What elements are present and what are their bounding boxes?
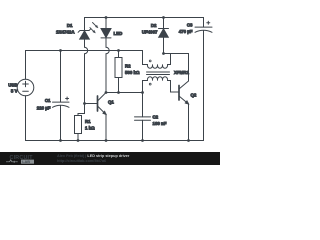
transistor Q2 xyxy=(179,54,189,141)
node junction Q2 emitter xyxy=(187,139,190,142)
svg-text:1N4742A: 1N4742A xyxy=(56,30,75,35)
svg-text:5 V: 5 V xyxy=(11,89,18,94)
svg-text:LED: LED xyxy=(114,31,123,36)
svg-text:UF4007: UF4007 xyxy=(142,30,158,35)
diode D2 xyxy=(159,18,169,54)
svg-text:USB: USB xyxy=(8,83,17,88)
wire D1 anode to Q1 base node xyxy=(84,54,86,104)
transformer XFMR1 phase dot bottom xyxy=(149,83,151,85)
node junction C1 bottom xyxy=(59,139,62,142)
capacitor C3 xyxy=(195,18,212,141)
wire feedback net y92 xyxy=(106,92,143,94)
transformer XFMR1 core xyxy=(147,72,170,75)
svg-text:Q2: Q2 xyxy=(191,92,197,97)
node junction Q1 base D1 R1 xyxy=(83,102,86,105)
footer CircuitLab logo xyxy=(6,155,34,164)
capacitor C1 xyxy=(53,51,70,141)
wire plus rail y50 xyxy=(26,50,143,52)
wire USB plus up xyxy=(25,51,27,80)
svg-text:220 µF: 220 µF xyxy=(37,106,51,111)
node junction R1 bottom xyxy=(77,139,80,142)
capacitor C2 xyxy=(135,93,151,141)
svg-text:470 µF: 470 µF xyxy=(179,29,193,34)
LED arrow 1 xyxy=(93,23,96,26)
svg-text:D1: D1 xyxy=(67,23,73,28)
voltage source USB V1 xyxy=(17,79,34,96)
svg-text:R1: R1 xyxy=(85,119,91,124)
wire top rail xyxy=(85,17,204,19)
svg-text:C3: C3 xyxy=(187,23,193,28)
node junction C2 top winding left xyxy=(141,91,144,94)
svg-text:Alex Feb (flebi) | LED strip s: Alex Feb (flebi) | LED strip stepup driv… xyxy=(57,154,130,158)
node junction C1 top xyxy=(59,49,62,52)
node junction Q1 collector xyxy=(105,91,108,94)
transformer XFMR1 primary winding top xyxy=(143,51,171,69)
wire ground rail bottom xyxy=(26,140,204,142)
label C3 plus polarity xyxy=(207,21,210,24)
wire USB minus down xyxy=(25,96,27,141)
node junction R2 bottom xyxy=(117,91,120,94)
wire LED cathode to Q1 collector node xyxy=(105,54,107,93)
transistor Q1 xyxy=(85,93,107,141)
svg-text:XFMR1: XFMR1 xyxy=(174,70,189,75)
footer bar xyxy=(0,152,220,165)
node junction top rail LED xyxy=(105,16,108,19)
svg-text:http://circuitlab.com/5kt7a6: http://circuitlab.com/5kt7a6 xyxy=(57,159,106,163)
resistor R1 xyxy=(75,104,85,141)
svg-text:R2: R2 xyxy=(125,64,131,69)
node junction C2 bottom xyxy=(141,139,144,142)
node junction top rail D2 xyxy=(162,16,165,19)
node junction R2 top xyxy=(117,49,120,52)
node junction D2 anode winding Q2 xyxy=(162,52,165,55)
transformer XFMR1 secondary winding bottom xyxy=(143,77,180,93)
svg-text:100 nF: 100 nF xyxy=(153,121,167,126)
wire D2 anode to Q2 collector xyxy=(164,53,189,55)
label C1 plus polarity xyxy=(66,97,69,100)
svg-text:500 kΩ: 500 kΩ xyxy=(125,70,140,75)
svg-text:Q1: Q1 xyxy=(108,99,114,104)
node junction Q1 emitter xyxy=(105,139,108,142)
LED xyxy=(101,18,111,48)
transformer XFMR1 phase dot top xyxy=(149,60,151,62)
svg-text:C1: C1 xyxy=(45,98,51,103)
zener diode D1 xyxy=(78,18,91,48)
wire LED hop over y50 rail xyxy=(106,47,109,53)
LED arrow 2 xyxy=(90,28,93,31)
svg-text:C2: C2 xyxy=(153,115,159,120)
svg-text:LAB: LAB xyxy=(22,160,30,164)
svg-text:1 kΩ: 1 kΩ xyxy=(85,126,95,131)
svg-text:D2: D2 xyxy=(151,23,157,28)
resistor R2 xyxy=(115,51,122,93)
wire D1 hop over y50 rail xyxy=(85,47,88,53)
